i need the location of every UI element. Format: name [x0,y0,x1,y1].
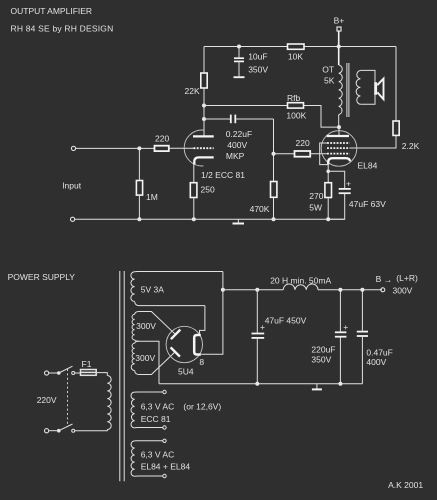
wire filament top feed [200,306,205,334]
svg-text:Input: Input [62,181,82,191]
resistor 270 5W [325,183,332,198]
winding heater ECC81 [131,392,135,428]
svg-text:220uF: 220uF [311,345,335,355]
svg-text:+: + [346,179,351,189]
tube V1 1/2 ECC81 [184,130,203,166]
svg-text:1/2 ECC 81: 1/2 ECC 81 [201,170,245,180]
transformer PT primary [107,376,111,430]
wire coupling node [204,118,230,120]
transformer PT core [119,271,121,481]
wire input top [76,147,155,149]
wire Rfb to EL84 plate [304,106,340,128]
capacitor 47uF 63V [339,188,351,190]
svg-text:47uF 63V: 47uF 63V [349,199,386,209]
switch bottom [49,430,57,432]
node mains top [45,371,49,375]
wire g3 tie [320,143,329,165]
capacitor C 0.22uF [230,115,232,124]
anode plate lower [171,347,180,356]
capacitor 47uF 450V [256,290,258,333]
svg-text:6,3 V AC: 6,3 V AC [141,450,175,460]
svg-text:5K: 5K [324,75,335,85]
svg-text:F1: F1 [82,359,92,369]
wire to EL84 g1 [310,153,327,155]
svg-text:EL84: EL84 [358,161,378,171]
svg-text:6,3 V AC: 6,3 V AC [141,402,175,412]
wire filament bottom feed / B+ takeoff [201,272,223,355]
wire center tap [135,340,159,384]
svg-text:350V: 350V [311,355,331,365]
node input jack bottom [71,217,75,221]
svg-text:OT: OT [322,65,334,75]
node B+ [337,27,341,31]
tube V2 EL84 [321,131,357,167]
svg-text:(or 12,6V): (or 12,6V) [183,402,221,412]
winding heater EL84 [131,441,135,476]
svg-text:300V: 300V [136,321,156,331]
capacitor 0.47uF 400V [361,290,363,331]
svg-text:5U4: 5U4 [178,367,194,377]
svg-text:10K: 10K [288,52,303,62]
capacitor C 10uF [237,45,241,49]
svg-text:B: B [376,274,382,284]
svg-text:A.K 2001: A.K 2001 [388,480,423,490]
resistor Rfb 100K [288,103,304,108]
svg-text:47uF 450V: 47uF 450V [265,316,307,326]
svg-text:22K: 22K [185,86,200,96]
wire 220 to V1 grid [169,147,194,149]
wire B+ drop [338,31,340,65]
winding 5V 3A [131,272,135,302]
svg-text:100K: 100K [286,111,306,121]
inductor choke 20H [283,284,318,290]
resistor 250 [190,183,197,198]
transformer OT secondary [356,71,360,105]
resistor 22K [203,47,205,74]
wire top rail left [204,46,288,48]
svg-text:EL84 + EL84: EL84 + EL84 [141,462,191,472]
svg-text:220V: 220V [37,395,57,405]
svg-text:MKP: MKP [226,151,245,161]
svg-text:+: + [343,322,348,332]
node mains bottom [45,429,49,433]
svg-text:POWER SUPPLY: POWER SUPPLY [8,272,76,282]
wire switch gang dashed [67,369,69,427]
wire top rail drop right [395,47,397,122]
wire fuse to primary [96,373,107,376]
wire speaker top [360,70,375,104]
capacitor 220uF 350V [339,290,341,332]
node input jack top [71,146,75,150]
svg-text:350V: 350V [248,65,268,75]
winding 300V lower [131,343,134,370]
wire top rail right [304,46,396,48]
transformer OT primary [339,65,343,115]
svg-text:→: → [384,274,393,284]
svg-text:400V: 400V [227,140,247,150]
svg-text:1M: 1M [146,192,158,202]
resistor 220 grid stopper [295,151,311,157]
svg-text:8: 8 [199,357,204,367]
wire cathode [327,163,329,183]
fuse F1 [75,372,81,374]
svg-text:250: 250 [201,185,215,195]
svg-text:B+: B+ [334,16,345,26]
resistor 1M [138,148,140,180]
svg-text:2.2K: 2.2K [402,141,420,151]
ground [237,219,239,222]
wire ground rail psu [159,383,362,385]
anode plate upper [171,330,180,340]
svg-text:270: 270 [309,191,323,201]
svg-text:400V: 400V [366,357,386,367]
wire V1 plate lead [203,106,205,136]
tube 5U4 [166,326,202,362]
wire B rail [223,289,283,291]
svg-text:20 H min. 50mA: 20 H min. 50mA [270,276,331,286]
svg-text:(L+R): (L+R) [396,273,418,283]
node B out [381,288,385,292]
svg-text:300V: 300V [135,353,155,363]
svg-text:RH 84 SE by RH DESIGN: RH 84 SE by RH DESIGN [11,24,114,34]
svg-text:5V 3A: 5V 3A [141,285,164,295]
svg-text:220: 220 [296,138,310,148]
resistor 470K [271,182,277,198]
svg-text:10uF: 10uF [248,52,267,62]
svg-text:OUTPUT AMPLIFIER: OUTPUT AMPLIFIER [11,6,93,16]
svg-text:Rfb: Rfb [287,93,301,103]
switch top [49,372,57,374]
signature [388,480,423,490]
title [11,6,114,34]
svg-text:220: 220 [155,134,169,144]
svg-text:0.22uF: 0.22uF [226,129,252,139]
cathode 5U4 [194,335,201,355]
svg-text:0.47uF: 0.47uF [366,348,392,358]
svg-text:300V: 300V [393,285,413,295]
speaker [374,82,377,95]
svg-text:470K: 470K [250,204,270,214]
resistor 220 input [155,146,169,151]
ground [316,384,318,389]
resistor 10K [288,44,305,49]
resistor 2.2K [393,121,399,135]
wire plate node to Rfb [202,104,206,108]
svg-text:ECC 81: ECC 81 [141,414,171,424]
winding 300V upper [132,314,135,340]
transformer OT core [346,63,348,117]
svg-text:5W: 5W [309,203,322,213]
wire to 470K / 220 [273,119,275,182]
wire ground rail amp [75,218,345,220]
